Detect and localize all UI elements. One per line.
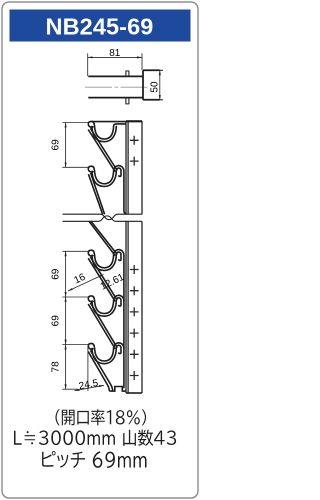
- strip shank below break (lower edge): [89, 221, 115, 255]
- hook 5 lip curl inner / strip end: [116, 298, 121, 306]
- cross mark at y=140.3: [130, 136, 139, 145]
- top view: lower tab: [126, 98, 129, 104]
- hook 1 cup outer edge: [92, 126, 116, 142]
- svg-text:NB245-69: NB245-69: [46, 14, 154, 40]
- hook 6 shank upper edge: [90, 350, 112, 391]
- top view: hook bar top edge: [88, 75, 143, 77]
- strip shank below break (upper edge): [91, 221, 117, 254]
- hook 6 shank lower edge: [88, 352, 109, 392]
- caption line 1: (開口率18%): [55, 409, 146, 425]
- hook 1 shank upper edge: [90, 128, 117, 170]
- hook 4 cup outer edge: [92, 255, 116, 271]
- hook 2 shank lower edge (to break): [88, 174, 102, 214]
- svg-text:69: 69: [51, 139, 62, 151]
- dim 69 (lower) line with arrows: [65, 297, 67, 345]
- hook 6 cup outer edge: [92, 348, 116, 364]
- hook 4 shank upper edge: [90, 257, 117, 300]
- dim 50: dimension line with arrows: [159, 70, 161, 100]
- hook 5 tip curl: [88, 296, 94, 302]
- hook 1 cup inner edge: [95, 125, 114, 139]
- hook 5 tail along rail: [123, 300, 125, 348]
- hook 1 shank lower edge: [88, 130, 115, 172]
- dim 81: right extension line: [141, 53, 143, 70]
- top view: plate bottom edge: [143, 99, 160, 101]
- cross mark at y=290.7: [130, 286, 139, 295]
- break line lower: [63, 216, 143, 221]
- hook 4 tip curl: [88, 250, 94, 256]
- svg-text:81: 81: [109, 48, 121, 59]
- hook 4 lip curl inner / strip end: [116, 252, 121, 260]
- extension line at tip y=167.3: [62, 166, 88, 168]
- extension line at tip y=344.5: [62, 344, 88, 346]
- cross mark at y=311.9: [130, 307, 139, 316]
- hook 5 cup outer edge: [92, 300, 116, 316]
- blue title bar: [10, 10, 191, 42]
- hook 4 shank lower edge: [88, 258, 115, 301]
- svg-text:50: 50: [150, 81, 161, 93]
- hook 2 cup outer edge: [92, 171, 116, 187]
- hook 4 cup inner edge: [95, 254, 114, 268]
- top view: plate bottom ext: [160, 99, 163, 101]
- svg-text:78: 78: [51, 361, 62, 373]
- hook 2 tip curl: [88, 166, 94, 172]
- top view: plate top edge: [143, 69, 160, 71]
- hook 4 lip curl outer: [114, 250, 124, 255]
- hook 2 lip curl outer: [114, 166, 124, 171]
- dim 69 (top) line with arrows: [65, 123, 67, 168]
- hook 6 cup inner edge: [95, 347, 114, 361]
- svg-text:69: 69: [51, 315, 62, 327]
- dim 81: dimension line with arrows: [88, 56, 142, 58]
- hook 1 strip top edge: [92, 121, 143, 123]
- cross mark at y=269.5: [130, 265, 139, 274]
- dim 78 line with arrows: [65, 345, 67, 390]
- hook 1 tip curl: [88, 121, 94, 127]
- hook 2 tail along rail: [124, 171, 127, 214]
- dim 81: left extension line: [87, 53, 89, 76]
- extension line at tip y=297: [62, 296, 88, 298]
- hook 6 tip curl: [88, 343, 94, 349]
- top view: hook bar bottom edge: [88, 97, 143, 99]
- dim 16 line with arrows: [68, 275, 104, 292]
- rail bottom edge: [126, 392, 142, 394]
- extension line at tip y=122.5: [62, 122, 88, 124]
- rail right edge: [141, 121, 143, 393]
- break line upper: [63, 214, 143, 219]
- hook 6 lip curl outer: [114, 343, 124, 348]
- rail left edge line 2: [127, 121, 129, 393]
- top view: plate left edge: [142, 70, 144, 100]
- hook 5 lip curl outer: [114, 295, 124, 300]
- caption line 3: ピッチ 69mm: [42, 451, 146, 468]
- cross mark at y=375.5: [130, 371, 139, 380]
- top view: centerline: [85, 86, 149, 88]
- hook 2 lip curl inner / strip end: [116, 168, 121, 176]
- hook 5 cup inner edge: [95, 300, 114, 314]
- svg-text:69: 69: [51, 268, 62, 280]
- caption line 2: L≒3000mm 山数43: [14, 430, 176, 447]
- cross mark at y=333.1: [130, 329, 139, 338]
- rail top edge: [126, 120, 142, 122]
- extension line at tip y=251.3: [62, 250, 88, 252]
- dim 69 (mid) line with arrows: [65, 251, 67, 297]
- hook 6 tail along rail: [123, 348, 125, 389]
- cross mark at y=161.1: [130, 157, 139, 166]
- dim 24.5 extension line (tip vertical): [87, 346, 89, 391]
- strip bottom edge with notch: [109, 387, 126, 392]
- hook 4 tail along rail: [123, 255, 125, 302]
- hook 1 strip lower edge: [114, 124, 126, 126]
- rail left edge line 1: [125, 121, 127, 393]
- dim 24.5 line with arrows: [75, 385, 105, 390]
- top view: upper tab: [126, 71, 129, 76]
- cross mark at y=354.3: [130, 350, 139, 359]
- top view: plate top ext: [160, 69, 163, 71]
- extension line bottom (78): [62, 388, 78, 390]
- hook 5 shank upper edge: [90, 303, 117, 348]
- hook 5 shank lower edge: [88, 304, 115, 349]
- hook 6 lip curl inner / strip end: [116, 345, 121, 353]
- outer rounded frame: [2, 2, 198, 498]
- hook 2 cup inner edge: [95, 170, 114, 184]
- hook 2 shank upper edge (to break): [91, 173, 105, 214]
